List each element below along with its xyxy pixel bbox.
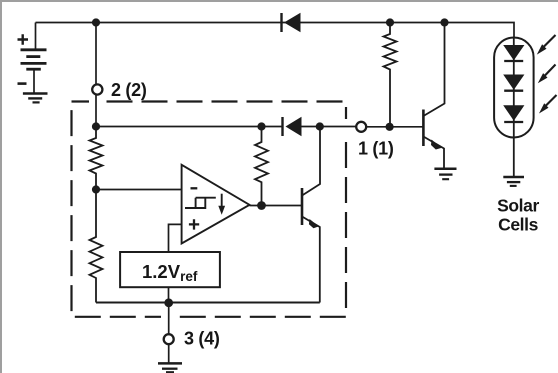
wire Vref to bottom rail (168, 287, 170, 302)
light arrow 3 (539, 95, 557, 114)
wire pin3 to ground (168, 344, 170, 363)
ground (solar cells) (503, 177, 524, 186)
resistor R2 (90, 190, 103, 303)
wire from D2 to pin 1 (301, 126, 356, 128)
wire top rail (36, 23, 515, 39)
node B (R4 top) (386, 18, 394, 26)
wire internal rail (96, 126, 282, 128)
svg-text:Cells: Cells (498, 215, 538, 235)
resistor R4 (384, 23, 397, 127)
transistor Q2 (423, 27, 444, 169)
node I (op-amp output) (257, 201, 266, 210)
wire bottom rail (96, 302, 320, 304)
wire from node A down to pin 2 (95, 23, 97, 85)
photodiode D7 (503, 105, 524, 122)
svg-text:Solar: Solar (497, 196, 539, 216)
node G (R4 bottom) (386, 123, 394, 131)
wire pin1 to Q2 base (366, 126, 423, 128)
node J (pin 3 junction) (164, 298, 173, 307)
wire from pin 2 into IC (95, 95, 97, 127)
ground (pin 3) (158, 363, 182, 372)
pin 2 terminal (92, 84, 102, 94)
light arrow 1 (537, 35, 556, 55)
transistor Q1 (302, 127, 320, 303)
node F (Q1 collector junction) (316, 122, 324, 130)
svg-text:3 (4): 3 (4) (184, 329, 220, 349)
diode D2 (283, 117, 302, 136)
op-amp U1 (182, 165, 250, 244)
wire tap to inverting input (96, 189, 182, 191)
wire non-inverting input to Vref (169, 224, 182, 252)
wire op-amp output to Q1 base (250, 205, 303, 207)
light arrow 2 (538, 65, 556, 84)
svg-text:2 (2): 2 (2) (111, 80, 147, 100)
voltage reference U2 (1.2Vref) (120, 252, 220, 287)
diode D1 (282, 13, 301, 32)
pin 1 terminal (356, 122, 366, 132)
photodiode D6 (503, 75, 524, 91)
ground (Q2 emitter) (434, 169, 456, 179)
node D (left rail of IC) (92, 122, 100, 130)
node A (battery / pin2 junction) (92, 18, 100, 26)
node H (feedback divider tap) (92, 185, 100, 193)
node C (Q2 collector junction) (440, 18, 448, 26)
photodiode D5 (503, 45, 524, 61)
IC boundary (dashed box) (72, 99, 351, 321)
ground (battery) (23, 94, 48, 103)
resistor R1 (90, 127, 103, 190)
resistor R3 (255, 127, 268, 206)
pin 3 terminal (164, 334, 174, 344)
svg-text:1 (1): 1 (1) (358, 139, 394, 159)
battery B1 (18, 23, 47, 94)
node E (R3 top) (257, 122, 265, 130)
wire pin3 stem (168, 303, 170, 334)
solar cells assembly (494, 38, 533, 177)
